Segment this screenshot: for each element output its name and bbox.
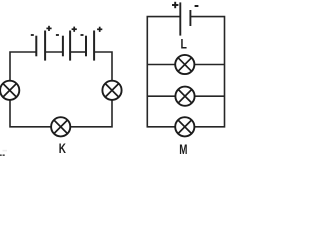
label - cell 1 — [31, 34, 34, 36]
wire parallel-loop right circuit — [147, 17, 224, 127]
wire branch 1 — [147, 64, 224, 66]
svg-text:K: K — [59, 141, 66, 156]
lamp M — [175, 117, 194, 136]
label + battery B2 — [172, 2, 178, 8]
svg-text:L: L — [181, 37, 187, 52]
battery cell 1 negative plate — [35, 36, 37, 57]
battery cell 1 positive plate — [44, 31, 46, 61]
wire series-loop left circuit — [10, 52, 112, 127]
label - battery B2 — [195, 5, 199, 7]
stray mark bottom-left (cropped text) — [0, 150, 7, 156]
label + cell 2 — [72, 27, 77, 32]
battery B2 negative plate — [189, 10, 191, 26]
battery B2 positive plate — [179, 2, 181, 35]
svg-text:M: M — [179, 142, 187, 156]
label + cell 1 — [46, 26, 51, 31]
wire cell1-cell2 link — [45, 51, 63, 53]
wire cell2-cell3 link — [70, 51, 86, 53]
label - cell 3 — [81, 34, 84, 36]
lamp K — [51, 117, 70, 136]
battery cell 3 positive plate — [93, 31, 95, 61]
label - cell 2 — [56, 34, 59, 36]
lamp left (series) — [0, 81, 19, 100]
lamp L — [175, 55, 194, 74]
battery cell 2 positive plate — [69, 31, 71, 61]
wire branch 2 — [147, 95, 224, 97]
battery cell 3 negative plate — [85, 36, 87, 57]
battery cell 2 negative plate — [62, 36, 64, 57]
lamp middle (parallel) — [175, 87, 194, 106]
lamp right (series) — [102, 81, 121, 100]
label + cell 3 — [97, 27, 102, 32]
